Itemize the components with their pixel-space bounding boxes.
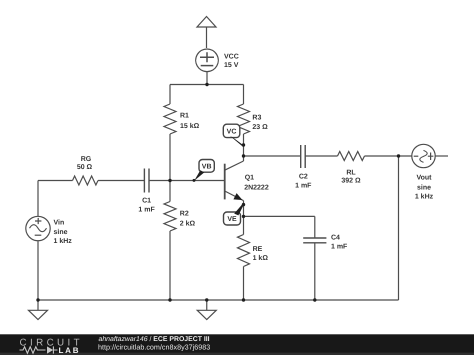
svg-text:C2: C2 (299, 173, 308, 180)
svg-text:VC: VC (227, 128, 237, 135)
svg-text:15 kΩ: 15 kΩ (180, 122, 200, 130)
svg-text:C1: C1 (142, 198, 151, 205)
svg-text:R3: R3 (252, 114, 261, 121)
svg-text:Vin: Vin (54, 219, 65, 227)
svg-text:Vout: Vout (416, 175, 432, 182)
svg-text:sine: sine (54, 228, 68, 236)
svg-text:sine: sine (417, 183, 431, 191)
svg-text:50 Ω: 50 Ω (77, 164, 93, 171)
svg-text:RE: RE (253, 246, 263, 253)
svg-text:23 Ω: 23 Ω (252, 124, 268, 131)
svg-text:VE: VE (227, 216, 237, 223)
svg-text:15 V: 15 V (224, 62, 239, 69)
svg-text:1 mF: 1 mF (138, 207, 155, 214)
svg-text:1 mF: 1 mF (331, 243, 348, 250)
svg-text:1 kHz: 1 kHz (54, 237, 73, 245)
svg-text:392 Ω: 392 Ω (341, 178, 361, 185)
svg-text:LAB: LAB (59, 346, 81, 355)
svg-text:VB: VB (202, 163, 212, 170)
svg-text:RL: RL (346, 170, 356, 177)
svg-text:1 mF: 1 mF (295, 183, 312, 190)
svg-text:VCC: VCC (224, 54, 239, 61)
svg-text:C4: C4 (331, 235, 340, 242)
svg-text:Q1: Q1 (245, 174, 254, 181)
svg-text:2 kΩ: 2 kΩ (180, 220, 196, 228)
svg-text:1 kHz: 1 kHz (415, 193, 434, 201)
svg-text:2N2222: 2N2222 (244, 185, 269, 192)
svg-text:1 kΩ: 1 kΩ (253, 254, 269, 262)
svg-text:RG: RG (81, 156, 92, 163)
svg-text:R2: R2 (180, 211, 189, 218)
svg-text:http://circuitlab.com/cn8x8y37: http://circuitlab.com/cn8x8y37j6983 (98, 343, 210, 352)
svg-text:R1: R1 (180, 113, 189, 120)
